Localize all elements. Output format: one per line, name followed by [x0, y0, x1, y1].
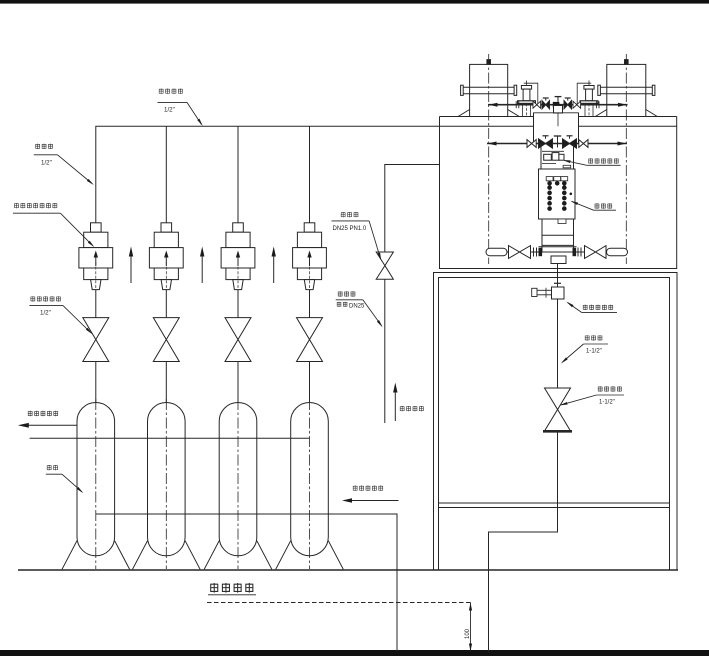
stop valve DN25 [376, 252, 393, 266]
upper frame tank [440, 117, 677, 269]
label: automatic drain valve [583, 305, 588, 310]
central unit mid walls [540, 144, 542, 170]
drain valve 1-1/2" [545, 388, 571, 410]
label: inlet pipe dia DN25 [338, 291, 343, 296]
label: drain pipe 1-1/2" [585, 335, 590, 340]
inlet branch pipe [385, 165, 440, 253]
label: from tap water [400, 406, 405, 411]
center gland blob upper pipe [553, 102, 560, 108]
pipe segment valve GV2 to tank [165, 362, 167, 404]
tank P1 centerline [95, 399, 97, 569]
indicator pair x=564.3 [561, 177, 568, 181]
drain pipe [557, 299, 559, 388]
flow direction arrow [201, 254, 203, 283]
pipe segment valve GV1 to tank [95, 362, 97, 404]
left rubber joint [486, 248, 507, 256]
flow direction arrow [130, 254, 132, 283]
label: air header 1/2" [159, 89, 164, 94]
upper suction pipe [488, 104, 628, 106]
air branch pipe [237, 126, 239, 223]
globe valves on lower pipe [539, 139, 546, 148]
water pump tank P3 [219, 402, 257, 537]
vacuum pump motor cx=626.3 [607, 64, 646, 116]
svg-text:1-1/2": 1-1/2" [599, 400, 615, 406]
shelf double line [439, 502, 670, 504]
air release valve ARV4 [293, 223, 327, 290]
lower frame inner [439, 278, 670, 571]
dimension 100 [470, 603, 472, 652]
pump outlet pipe with arrow [29, 424, 78, 426]
svg-text:DN25: DN25 [349, 304, 365, 310]
label: water pump [47, 465, 52, 470]
vacuum pump motor cx=488.7 [470, 64, 508, 116]
right bowtie valve [585, 246, 596, 259]
center tee box below upper pipe [554, 106, 563, 114]
water pump tank P2 [148, 402, 186, 537]
indicator column x=564.3 [562, 185, 567, 190]
label: one-way water-stop air release valve [14, 203, 19, 208]
label: control box [595, 203, 600, 208]
label: stop valve DN25 PN1.0 [341, 212, 346, 217]
label: air branch pipe 1/2" [35, 144, 40, 149]
air header pipe [96, 126, 440, 223]
flange ticks upper pipe [515, 101, 517, 108]
svg-text:100: 100 [465, 628, 471, 639]
flow direction arrow [273, 254, 275, 283]
right rubber joint [607, 248, 628, 256]
motor centerline [625, 54, 627, 264]
open bowtie valves upper pipe [533, 101, 537, 108]
central unit upper walls [534, 112, 579, 114]
gate valve GV4 1/2" [297, 318, 323, 340]
automatic water inlet valve [542, 150, 564, 152]
motor flange [600, 86, 652, 88]
pipe segment ARV2 to valve [165, 290, 167, 318]
tank P4 legs [276, 541, 291, 570]
floor line [18, 569, 678, 571]
water pump tank P1 [77, 402, 115, 537]
air release valve ARV3 [221, 223, 255, 290]
pipe segment valve GV4 to tank [309, 362, 311, 404]
motor base skirt [458, 110, 470, 117]
outlet manifold [30, 437, 310, 439]
svg-text:1-1/2": 1-1/2" [586, 349, 602, 355]
tank P3 legs [204, 541, 219, 570]
air release valve ARV1 [79, 223, 113, 290]
gate valve GV1 1/2" [83, 318, 109, 340]
flange ticks [533, 248, 535, 257]
tap water supply arrow [394, 390, 396, 421]
center drop box [551, 256, 566, 264]
tank P4 centerline [309, 399, 311, 569]
motor flange [463, 86, 514, 88]
top border bar [0, 0, 709, 4]
svg-text:DN25 PN1.0: DN25 PN1.0 [333, 226, 367, 232]
control box [539, 169, 576, 219]
air branch pipe [309, 126, 311, 223]
pipe segment valve GV3 to tank [237, 362, 239, 404]
label: air pipe valve 1/2" [31, 296, 36, 301]
motor centerline [488, 54, 490, 264]
air branch pipe [165, 126, 167, 223]
svg-text:1/2": 1/2" [164, 107, 175, 114]
bonnet valve on upper pipe x=526.5 [521, 86, 531, 90]
label: automatic inlet valve [588, 158, 593, 163]
bonnet bypass lines [524, 83, 538, 105]
gate valve GV3 1/2" [225, 318, 251, 340]
pipe segment ARV3 to valve [237, 290, 239, 318]
tank P2 centerline [165, 399, 167, 569]
automatic drain valve [552, 287, 565, 299]
lower frame outer [434, 273, 678, 571]
indicator column x=549.6 [547, 185, 552, 190]
motor base skirt [595, 110, 607, 117]
label: pump outlet pipe [28, 411, 33, 416]
tank P1 legs [62, 541, 77, 570]
dark gland blobs [539, 248, 543, 256]
globe valves center of upper pipe [542, 101, 546, 109]
bottom distribution pipe [486, 251, 628, 253]
center stem on lower pipe [557, 137, 559, 148]
bonnet valve on upper pipe x=589.0 [584, 86, 594, 90]
gate valve GV2 1/2" [153, 318, 179, 340]
central unit lower tiers [558, 219, 566, 224]
pipe segment ARV1 to valve [95, 290, 97, 318]
label: pump suction pipe with arrow [353, 486, 358, 491]
upper frame inner top line [440, 125, 534, 127]
air release valve ARV2 [149, 223, 183, 290]
tank P2 legs [133, 541, 148, 570]
indicator pair x=557.2 [554, 177, 561, 181]
lower suction pipe [487, 143, 627, 145]
pipe segment ARV4 to valve [309, 290, 311, 318]
water pump tank P4 [291, 403, 329, 537]
drain pipe to pool [489, 431, 558, 652]
tank P3 centerline [237, 399, 239, 569]
bottom border bar [0, 650, 709, 656]
svg-text:1/2": 1/2" [41, 160, 52, 167]
svg-text:1/2": 1/2" [40, 310, 51, 317]
label: drain valve 1-1/2" [598, 386, 603, 391]
pool water level dashed line [207, 602, 471, 604]
indicator pair x=549.6 [546, 177, 553, 181]
left bowtie valve [509, 246, 520, 259]
open bowtie valves on lower pipe [527, 140, 532, 148]
label: pool water level [210, 583, 218, 593]
suction manifold [96, 514, 397, 652]
